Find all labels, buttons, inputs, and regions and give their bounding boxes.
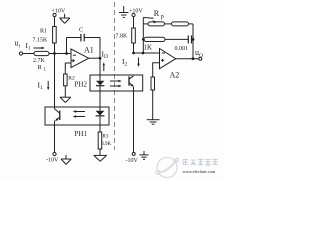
junction output (192, 57, 195, 60)
svg-text:R1: R1 (38, 64, 47, 73)
svg-text:A2: A2 (170, 71, 180, 80)
junction 1K tap (142, 38, 145, 41)
junction node B (132, 52, 135, 55)
wire PH1 LED cathode to R3 (99, 116, 101, 132)
wire LED cathode down through gap (99, 86, 101, 111)
op-amp A1 (71, 46, 94, 68)
resistor R3 3.9K (98, 132, 111, 149)
PH1 optocoupler box (45, 107, 109, 125)
svg-text:3.9K: 3.9K (101, 142, 111, 147)
output riser (192, 24, 194, 59)
ground (output side, bottom) (139, 151, 148, 159)
ground (below R2) (60, 97, 71, 102)
wire node A down to PH1 detector (54, 54, 56, 110)
+10V terminal (input side) (52, 9, 66, 17)
output terminal u_o (195, 48, 203, 60)
+10V terminal (output side) (129, 9, 143, 17)
junction A1 output node (99, 57, 102, 60)
wire cap to output riser (192, 38, 193, 40)
light arrows PH1 (pointing left) (73, 110, 85, 118)
wire +10V to 7.8K (133, 17, 135, 28)
isolation dashed line (114, 2, 116, 150)
LED D2 (in PH2) (96, 81, 104, 86)
svg-text:0.001: 0.001 (175, 46, 189, 52)
svg-text:7.8K: 7.8K (116, 34, 129, 40)
feedback riser down to A1 output (99, 38, 101, 59)
wire to capacitor C (67, 37, 81, 39)
resistor 2.7K R1 (horizontal) (33, 51, 49, 72)
label I1 with right arrow (26, 42, 45, 52)
svg-text:Rp: Rp (154, 9, 164, 20)
svg-text:A1: A1 (84, 46, 94, 55)
wire R1 bottom to node A (54, 43, 56, 54)
photodetector (in PH1) (55, 109, 60, 121)
svg-text:+10V: +10V (52, 9, 66, 15)
svg-text:PH1: PH1 (75, 130, 88, 138)
resistor 7.8K (116, 28, 136, 43)
wire A1 plus input (65, 63, 71, 74)
wire resistor to ground (152, 90, 154, 120)
node A junction (53, 52, 56, 55)
wire A2 plus input (153, 63, 160, 77)
wire into PH2 LED anode (99, 58, 101, 81)
svg-text:R1: R1 (40, 29, 47, 35)
wire 7.8K to node B (133, 43, 135, 53)
watermark text (183, 159, 218, 165)
junction feedback tap (142, 52, 145, 55)
wire u_i to 2.7K (23, 53, 34, 55)
wire capacitor to output riser (85, 37, 101, 39)
PH2 optocoupler box (90, 75, 143, 91)
resistor (series with Rp) (172, 22, 189, 26)
svg-text:7.15K: 7.15K (33, 38, 49, 44)
capacitor C branch riser (66, 38, 68, 54)
svg-text:I2: I2 (122, 57, 128, 68)
wire between Rp and second resistor (165, 23, 172, 25)
wire detector emitter down to -10V (54, 121, 56, 153)
svg-text:C: C (79, 27, 83, 34)
svg-text:R3: R3 (103, 135, 109, 140)
potentiometer Rp wiper arm (143, 9, 163, 23)
light arrows PH2 (110, 80, 122, 88)
wire to output riser (189, 23, 194, 25)
feedback riser x143 (142, 18, 144, 54)
svg-text:PH2: PH2 (75, 81, 88, 89)
label I1 with down arrow (38, 81, 50, 92)
svg-text:ui: ui (15, 39, 21, 50)
resistor R2 (64, 74, 75, 86)
ground (input side, top) (60, 14, 70, 24)
wire phototransistor emitter to -10V (output side) (133, 87, 135, 153)
resistor Rp body (148, 22, 165, 26)
resistor R1 7.15K (33, 27, 57, 44)
capacitor C (79, 27, 84, 42)
op-amp A2 (160, 49, 180, 80)
wire A2 output to u_o (176, 58, 199, 60)
LED D1 (in PH1) (96, 111, 105, 116)
input terminal u_i (15, 39, 23, 56)
capacitor 0.001 (175, 35, 192, 52)
svg-text:-10V: -10V (46, 158, 59, 164)
ground (below R3) (94, 155, 107, 161)
svg-text:ID: ID (102, 50, 109, 61)
wire A1 output (89, 57, 100, 59)
node B row wire to A2 minus (134, 52, 160, 54)
svg-text:+10V: +10V (129, 9, 143, 15)
resistor (A2 plus to ground) (151, 77, 155, 90)
ground (output side, middle) (147, 120, 160, 125)
wire +10V to R1 (54, 17, 56, 27)
phototransistor (in PH2) (129, 76, 134, 87)
svg-text:uO: uO (195, 48, 203, 59)
wire R2 to ground (64, 86, 66, 97)
label I_D with up arrow (102, 50, 109, 72)
svg-text:I1: I1 (38, 81, 44, 92)
wire 1K to cap 0.001 (165, 38, 188, 40)
junction cap row (192, 38, 195, 41)
wire R3 to ground (99, 149, 101, 155)
svg-text:www.elecfans.com: www.elecfans.com (183, 169, 216, 174)
wire to Rp body (143, 23, 148, 25)
wire tap to 1K (143, 38, 144, 40)
watermark logo (156, 158, 179, 178)
svg-text:I1: I1 (26, 42, 31, 52)
-10V terminal (input side) (46, 152, 59, 163)
ground (input side, bottom) (61, 155, 71, 164)
svg-text:-10V: -10V (126, 158, 139, 164)
ground (output side, top) (119, 6, 129, 17)
-10V terminal (output side) (126, 152, 139, 164)
label I2 with down arrow (122, 57, 140, 68)
wire 2.7K to A1 minus input (49, 53, 71, 55)
resistor 1K (144, 37, 166, 51)
junction C branch tap (65, 52, 68, 55)
svg-text:1K: 1K (144, 44, 153, 52)
